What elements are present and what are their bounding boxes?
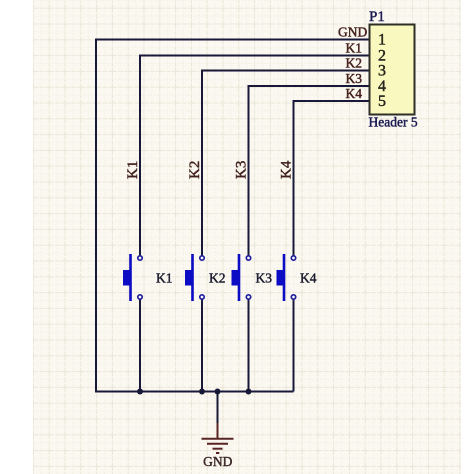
wire K4 net top xyxy=(294,101,371,256)
pushbutton K3 xyxy=(232,254,251,301)
wire K2 net top xyxy=(202,71,371,256)
svg-text:K2: K2 xyxy=(187,161,203,179)
wire K2 button to bus xyxy=(201,299,203,391)
svg-text:K1: K1 xyxy=(125,161,141,179)
svg-text:Header 5: Header 5 xyxy=(369,115,418,130)
svg-text:GND: GND xyxy=(203,454,232,469)
wire GND stem xyxy=(217,392,219,425)
wire K1 button to bus xyxy=(139,299,141,391)
svg-text:K3: K3 xyxy=(346,71,363,86)
wire K1 net top xyxy=(140,56,371,256)
svg-text:K1: K1 xyxy=(346,41,363,56)
svg-text:K1: K1 xyxy=(156,271,173,286)
svg-text:K4: K4 xyxy=(279,160,295,179)
wire K3 button to bus xyxy=(248,299,250,391)
svg-text:K3: K3 xyxy=(256,271,273,286)
svg-text:K4: K4 xyxy=(300,271,317,286)
pushbutton K2 xyxy=(185,254,204,301)
connector P1 body xyxy=(370,25,415,115)
pushbutton K1 xyxy=(123,254,142,301)
svg-text:K2: K2 xyxy=(346,56,363,71)
junction dot K3/bus xyxy=(246,389,252,395)
wire GND net: pin1 left, down, bottom bus xyxy=(96,40,371,392)
svg-text:K4: K4 xyxy=(346,86,363,101)
svg-text:K2: K2 xyxy=(209,271,226,286)
svg-text:3: 3 xyxy=(378,63,386,80)
svg-text:GND: GND xyxy=(338,25,367,40)
svg-text:5: 5 xyxy=(378,93,386,110)
wire K3 net top xyxy=(249,86,371,256)
wire K4 button to bus xyxy=(293,299,295,391)
junction dot K1/bus xyxy=(137,389,143,395)
svg-text:1: 1 xyxy=(378,32,386,49)
junction dot K2/bus xyxy=(199,389,205,395)
svg-text:P1: P1 xyxy=(369,9,385,25)
pushbutton K4 xyxy=(277,254,296,301)
ground symbol xyxy=(202,423,234,453)
junction dot GND stem/bus xyxy=(215,389,221,395)
svg-text:K3: K3 xyxy=(234,161,250,179)
